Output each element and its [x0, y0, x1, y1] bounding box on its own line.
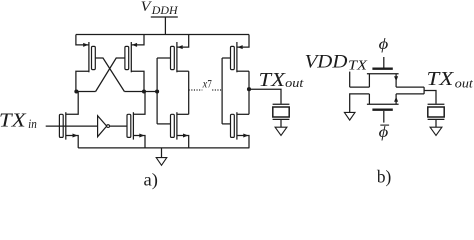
transistor M1 channel [88, 42, 90, 72]
wire x7 dotted right [212, 89, 222, 91]
transistor M8 channel [236, 112, 238, 139]
transistor M6 gate bar [171, 114, 175, 137]
wire C1 to ground [280, 119, 282, 127]
svg-text:DDH: DDH [151, 5, 179, 17]
junction node A [74, 89, 78, 93]
svg-text:ϕ: ϕ [379, 124, 389, 141]
svg-text:TX: TX [259, 69, 286, 91]
pad C1 bottom plate [273, 118, 290, 120]
wire TXout b vertical [423, 87, 425, 94]
pad C2 top plate [428, 103, 445, 105]
transistor M1 gate bar [92, 46, 96, 69]
transistor M1 drain wire [76, 71, 89, 91]
transistor Q1 left lead [368, 74, 370, 87]
svg-text:out: out [285, 76, 304, 90]
transistor M4 drain wire [133, 92, 145, 115]
transistor M6 NMOS arrow [183, 134, 188, 138]
transistor M4 NMOS arrow [139, 134, 144, 138]
inverter U1 triangle [98, 116, 107, 137]
wire VDDTX to Q1 [350, 86, 370, 88]
wire Q2 to ground [350, 94, 370, 113]
transistor Q2 gate bar [372, 108, 392, 110]
wire node A segment [76, 91, 96, 93]
wire ground stub [161, 148, 163, 158]
wire Q2 to TXout b [396, 93, 424, 95]
svg-text:TX: TX [0, 109, 27, 131]
svg-text:ϕ: ϕ [379, 36, 389, 53]
transistor M7 drain wire [237, 70, 249, 72]
transistor M2 source wire [131, 35, 144, 45]
transistor M6 gate wire [157, 123, 170, 125]
svg-text:a): a) [144, 170, 158, 191]
transistor Q1 channel [367, 73, 399, 75]
transistor M8 NMOS arrow [243, 134, 248, 138]
transistor M1 source wire [76, 35, 89, 45]
wire TXout vertical [248, 71, 250, 114]
transistor M7 source wire [237, 35, 249, 48]
transistor Q2 channel [367, 103, 399, 105]
wire phibar lead [383, 111, 385, 123]
transistor M5 gate bar [171, 46, 175, 69]
transistor Q1 right lead [395, 74, 397, 87]
ground main a [156, 158, 167, 166]
wire bottom rail [78, 147, 249, 149]
transistor M8 source wire [237, 136, 249, 148]
wire C2 to ground [435, 119, 437, 127]
junction node B [142, 89, 146, 93]
transistor M5 channel [176, 42, 178, 72]
ground pad C1 [275, 127, 287, 135]
transistor M7 PMOS arrow [237, 45, 242, 49]
wire x7 dotted left [189, 89, 203, 91]
transistor Q1 gate bar [372, 67, 392, 69]
transistor M3 drain wire [66, 92, 78, 115]
svg-text:TX: TX [348, 59, 368, 74]
transistor Q1 arrow [394, 76, 398, 81]
transistor M5 PMOS arrow [177, 45, 182, 49]
transistor M6 channel [176, 112, 178, 139]
transistor M7 gate bar [231, 46, 235, 69]
transistor Q2 arrow [394, 97, 398, 102]
wire U1 output [110, 125, 128, 127]
svg-text:TX: TX [427, 68, 455, 90]
transistor M4 channel [132, 112, 134, 139]
transistor M3 source wire [66, 136, 78, 148]
transistor M3 channel [65, 112, 67, 139]
wire node B segment [124, 91, 157, 93]
junction node C [155, 89, 159, 93]
wire top supply rail [76, 34, 249, 36]
transistor M6 drain wire [177, 113, 189, 115]
svg-text:V: V [141, 0, 153, 15]
transistor M5 drain wire [177, 70, 189, 72]
transistor M2 channel [130, 42, 132, 72]
transistor M2 drain wire [131, 71, 144, 91]
transistor M7 channel [236, 42, 238, 72]
wire VDDTX lead [349, 72, 351, 88]
transistor M6 source wire [177, 136, 189, 148]
transistor M5 source wire [177, 35, 189, 48]
ground main b [344, 112, 355, 120]
transistor M3 NMOS arrow [73, 134, 78, 138]
transistor M8 gate bar [231, 114, 235, 137]
wire TXout to pad [249, 89, 281, 104]
power symbol VDDH bar [151, 16, 178, 18]
transistor M3 gate bar [59, 114, 63, 137]
wire Q1 to TXout b [396, 86, 424, 88]
wire inverter1 gate vertical [156, 58, 158, 124]
svg-text:7: 7 [207, 77, 211, 91]
wire inverter1 output vertical [188, 71, 190, 114]
transistor Q2 left lead [368, 94, 370, 104]
junction TXout node [247, 87, 251, 91]
transistor Q2 right lead [395, 94, 397, 104]
transistor M4 gate bar [127, 114, 131, 137]
pad C1 body [273, 107, 289, 117]
wire M2 gate to node A diagonal [96, 58, 125, 92]
wire output stage gate vertical [221, 58, 223, 124]
svg-text:VDD: VDD [305, 51, 348, 72]
svg-text:in: in [28, 117, 37, 131]
wire M1 gate to node B diagonal [95, 58, 124, 92]
inverter U1 bubble [107, 125, 110, 128]
transistor M8 gate wire [222, 123, 230, 125]
wire VDDH stub [164, 17, 166, 35]
pad C2 body [428, 107, 444, 117]
transistor M7 gate wire [222, 57, 230, 59]
pad C1 top plate [273, 103, 290, 105]
transistor M4 source wire [133, 136, 145, 148]
transistor M2 gate bar [125, 46, 129, 69]
svg-text:b): b) [377, 167, 391, 188]
transistor M1 PMOS arrow [83, 43, 88, 47]
transistor M2 PMOS arrow [132, 43, 137, 47]
transistor M8 drain wire [237, 113, 249, 115]
wire TXin input [46, 125, 98, 127]
svg-text:out: out [455, 76, 473, 90]
wire phi lead [383, 57, 385, 68]
wire TXout b to pad [424, 91, 436, 104]
ground pad C2 [430, 127, 442, 135]
net phibar overline [380, 124, 389, 126]
pad C2 bottom plate [428, 118, 445, 120]
transistor M5 gate wire [157, 57, 170, 59]
